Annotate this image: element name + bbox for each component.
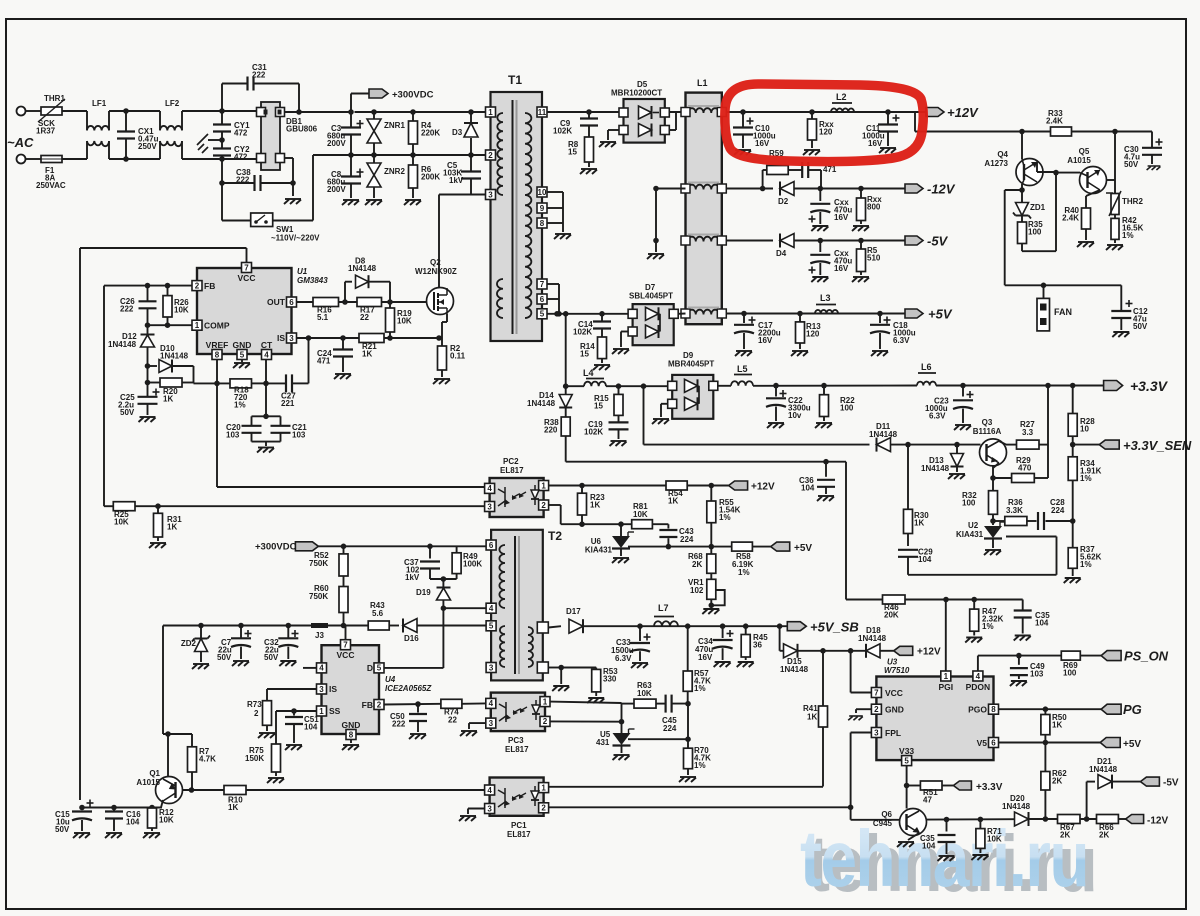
svg-text:1: 1 (944, 672, 949, 681)
PGO wire to PG flag (999, 708, 1101, 710)
ground C15 (73, 833, 90, 838)
svg-text:Q6: Q6 (881, 810, 892, 819)
wire T1 pin3 to Q2 drain (439, 194, 485, 196)
bridge rectifier DB1 (261, 102, 280, 170)
resistor R7 (191, 734, 193, 747)
svg-text:LF2: LF2 (165, 99, 180, 108)
svg-text:1: 1 (541, 783, 546, 792)
svg-text:ICE2A0565Z: ICE2A0565Z (385, 684, 432, 693)
ground C25 (139, 417, 156, 422)
svg-text:D17: D17 (566, 607, 581, 616)
+5V ref flag (771, 542, 790, 551)
ground Rxx (803, 150, 820, 155)
svg-text:102: 102 (690, 586, 704, 595)
wire L4 to D9 (606, 385, 667, 387)
wire D2 to -12V flag (821, 188, 905, 190)
svg-text:FAN: FAN (1054, 307, 1072, 317)
ground PC3 pin3 (469, 722, 486, 724)
capacitor C26 (147, 286, 149, 301)
ground C19 (610, 441, 627, 446)
ground U1 pin5 (241, 360, 243, 363)
capacitor C11 (887, 112, 889, 125)
svg-text:800: 800 (867, 202, 881, 211)
svg-text:100: 100 (962, 499, 976, 508)
ground R71 (971, 855, 988, 860)
diode D14 (565, 386, 567, 395)
wire R46 right (905, 599, 1023, 601)
wire +300 to T2 pin6 (318, 545, 487, 547)
svg-text:4: 4 (264, 350, 269, 359)
ground D5 return (608, 129, 619, 131)
svg-text:103: 103 (226, 430, 240, 439)
svg-text:U2: U2 (968, 521, 979, 530)
ground ZD2 (192, 664, 209, 669)
svg-text:EL817: EL817 (500, 466, 524, 475)
svg-text:3: 3 (487, 502, 492, 511)
T2 out tab top (537, 622, 548, 633)
ground PC1 pin3 (468, 808, 485, 810)
ground C12 (1112, 332, 1129, 337)
wire L1 row3 to D4 (726, 240, 773, 242)
svg-text:1%: 1% (694, 761, 706, 770)
svg-text:1kV: 1kV (405, 573, 420, 582)
U1 pin3 IS (287, 333, 297, 343)
ground C8 (342, 200, 359, 205)
svg-text:8: 8 (991, 705, 996, 714)
svg-text:4.7K: 4.7K (199, 754, 216, 763)
T1 pin5 (537, 309, 547, 319)
wire D15 junctions (823, 650, 866, 652)
svg-text:VREF: VREF (206, 340, 229, 350)
resistor R28 (1072, 386, 1074, 414)
svg-text:1N4148: 1N4148 (1089, 765, 1118, 774)
svg-text:4: 4 (487, 786, 492, 795)
snubber R59 (762, 170, 764, 189)
L1 winding 2 (688, 185, 719, 190)
diode D19 (441, 576, 447, 582)
resistor R2 (436, 335, 442, 341)
svg-text:3: 3 (289, 334, 294, 343)
snubber cap 471 (788, 169, 802, 171)
svg-text:D3: D3 (452, 128, 463, 137)
resistor R81 (632, 520, 653, 529)
wire Q6 base (851, 819, 900, 821)
svg-text:ZD2: ZD2 (181, 639, 197, 648)
svg-text:+3.3V: +3.3V (976, 782, 1003, 793)
ground C18 (871, 351, 888, 356)
capacitor C27 (263, 381, 269, 387)
svg-text:47: 47 (923, 795, 932, 804)
svg-text:472: 472 (234, 128, 248, 137)
svg-text:THR1: THR1 (44, 94, 65, 103)
wire D7 to L1 row4 (678, 313, 685, 315)
svg-text:2: 2 (541, 804, 546, 813)
ground U3 pin2 (856, 708, 871, 710)
svg-text:D4: D4 (776, 249, 787, 258)
+300VDC flag (350, 94, 352, 113)
svg-text:5: 5 (904, 756, 909, 765)
svg-text:472: 472 (234, 152, 248, 161)
svg-text:6.3V: 6.3V (929, 412, 946, 421)
resistor R12 (151, 807, 153, 810)
svg-text:1%: 1% (234, 400, 246, 409)
svg-text:9: 9 (540, 204, 545, 213)
svg-text:2: 2 (195, 281, 200, 290)
wire Q3 emitter (993, 463, 999, 468)
svg-text:6: 6 (289, 298, 294, 307)
resistor R73 (263, 701, 272, 726)
U6 ref wire (628, 546, 732, 548)
wire bottom CY2 to bridge (227, 158, 257, 160)
PDON wire (977, 656, 979, 671)
resistor R13 (799, 314, 801, 322)
PG flag (1101, 704, 1121, 714)
+5V output flag (905, 309, 923, 318)
svg-text:1N4148: 1N4148 (921, 464, 950, 473)
svg-text:50V: 50V (55, 825, 70, 834)
svg-text:6.3V: 6.3V (893, 336, 910, 345)
resistor R43 (368, 621, 389, 630)
capacitor C7 (240, 626, 242, 639)
diode D3 (468, 109, 474, 115)
wire D11 to Q3 base (891, 444, 981, 446)
capacitor C23 (962, 386, 964, 397)
svg-text:T2: T2 (548, 529, 562, 543)
resistor R66 (1097, 815, 1119, 824)
U4 pin1 SS (317, 706, 327, 716)
wire F1 to LF1 (62, 158, 87, 160)
svg-text:VCC: VCC (337, 650, 355, 660)
svg-text:2K: 2K (1060, 830, 1070, 839)
svg-text:100: 100 (1063, 668, 1077, 677)
R81 wire (561, 523, 632, 525)
wire L1 row2 left to ground (656, 188, 686, 190)
capacitor C38 (221, 159, 223, 221)
resistor R60 (343, 576, 345, 587)
V5 wire to +5V flag (999, 742, 1100, 744)
svg-text:224: 224 (680, 535, 694, 544)
svg-text:L5: L5 (737, 364, 748, 374)
svg-text:103: 103 (292, 430, 306, 439)
svg-text:GND: GND (885, 705, 904, 715)
5VSB rail (640, 625, 787, 627)
thermistor THR1 (41, 107, 62, 115)
svg-text:7: 7 (874, 688, 879, 697)
svg-text:200V: 200V (327, 139, 346, 148)
wire R25 to PC2 pin3 (135, 505, 485, 507)
svg-text:THR2: THR2 (1122, 197, 1143, 206)
capacitor C15 (81, 808, 83, 811)
wire VCC rail corner to R7 (162, 626, 164, 735)
capacitor C31 (221, 84, 223, 112)
ground C33 (631, 663, 648, 668)
T2 bottom tab ground (548, 667, 561, 669)
wire LF1 to CX1 bottom (109, 158, 160, 160)
AC terminal bottom (17, 155, 26, 164)
wire Q2 source to R2 (446, 314, 448, 322)
svg-text:1K: 1K (590, 500, 600, 509)
capacitor C33 (639, 626, 641, 641)
U3 pin2 GND (871, 704, 881, 714)
ground R31 (149, 543, 166, 548)
T2 pin5 (486, 621, 496, 631)
capacitor C36 (825, 462, 827, 477)
IC U1 GM3843 (197, 268, 292, 354)
ground R13 (791, 351, 808, 356)
svg-text:100K: 100K (463, 559, 482, 568)
svg-text:10: 10 (1080, 424, 1089, 433)
R46 wire (846, 599, 883, 601)
resistor R55 (710, 486, 712, 502)
svg-text:Q4: Q4 (997, 150, 1008, 159)
svg-text:VCC: VCC (885, 688, 903, 698)
diode D11 (877, 438, 891, 452)
U4 pin8 GND (346, 730, 356, 740)
svg-text:1N4148: 1N4148 (348, 264, 377, 273)
resistor R37 (1070, 518, 1076, 524)
transistor Q4 A1273 (1021, 132, 1023, 160)
ground C10 (734, 150, 751, 155)
+5V ref flag U3 (1100, 738, 1120, 748)
resistor R6 (412, 155, 414, 165)
svg-text:36: 36 (753, 640, 762, 649)
svg-text:+300VDC: +300VDC (255, 542, 297, 553)
wire LF2 to bridge top (182, 110, 256, 112)
wire down to D11 row (643, 386, 645, 444)
resistor R20 (145, 380, 151, 386)
wire PC2 pin1 (549, 485, 666, 487)
svg-text:ZD1: ZD1 (1030, 203, 1046, 212)
svg-text:GND: GND (342, 720, 361, 730)
svg-text:L3: L3 (820, 293, 831, 303)
svg-text:SBL4045PT: SBL4045PT (629, 292, 673, 301)
resistor R53 (561, 667, 596, 669)
svg-text:22: 22 (448, 716, 457, 725)
wire Q6 emitter to ground (908, 833, 919, 840)
svg-text:3: 3 (874, 728, 879, 737)
svg-text:2.4K: 2.4K (1046, 117, 1063, 126)
svg-text:1K: 1K (807, 713, 817, 722)
diode D20 (1015, 812, 1029, 826)
svg-text:B1116A: B1116A (973, 427, 1002, 436)
-12V bottom row wire (927, 818, 1015, 820)
resistor R63 (634, 699, 656, 708)
resistor R45 (745, 626, 747, 634)
svg-text:10K: 10K (397, 316, 412, 325)
svg-text:431: 431 (596, 738, 610, 747)
svg-text:16V: 16V (834, 264, 849, 273)
wire D5 to L1 (669, 111, 685, 113)
diode D13 (956, 445, 958, 453)
svg-text:8: 8 (215, 350, 220, 359)
wire +12V branch to R33 (914, 112, 916, 132)
ground R75 (267, 778, 284, 783)
svg-text:J3: J3 (315, 631, 324, 640)
svg-text:1N4148: 1N4148 (527, 399, 556, 408)
-5V output flag (905, 236, 923, 245)
U3 pin5 V33 (902, 756, 912, 766)
OUT wire / resistor R16 (297, 301, 314, 303)
FB wire (104, 285, 192, 287)
svg-text:220K: 220K (421, 128, 440, 137)
svg-text:1K: 1K (167, 522, 177, 531)
T1 pin10 (537, 187, 547, 197)
ground R12 (143, 833, 160, 838)
svg-text:3: 3 (319, 685, 324, 694)
svg-text:+12V: +12V (917, 647, 941, 658)
shunt regulator U5 431 (621, 722, 623, 733)
ground D7 return (621, 331, 628, 333)
svg-text:+3.3V: +3.3V (1130, 378, 1169, 394)
svg-text:1N4148: 1N4148 (858, 634, 887, 643)
svg-text:PGI: PGI (938, 682, 953, 692)
svg-text:+5V: +5V (794, 543, 812, 554)
D11 sense wire (644, 444, 870, 446)
svg-text:U4: U4 (385, 675, 396, 684)
shunt regulator U6 KIA431 (620, 524, 622, 536)
resistor R58 (732, 542, 753, 551)
T2 pin4 (486, 603, 496, 613)
wire U4 VCC (345, 626, 347, 640)
+12V ref flag (729, 481, 748, 490)
wire C36 column down (845, 462, 847, 600)
capacitors C20 C21 (263, 414, 269, 420)
resistor R36 and C28 (993, 520, 1005, 522)
svg-text:16V: 16V (868, 139, 883, 148)
resistor R41 (822, 651, 824, 706)
resistor R68 (710, 547, 712, 554)
svg-text:KIA431: KIA431 (585, 546, 613, 555)
T1 pin3 (486, 190, 496, 200)
svg-text:22: 22 (360, 313, 369, 322)
svg-text:10K: 10K (114, 517, 129, 526)
svg-text:3.3: 3.3 (1022, 428, 1034, 437)
chassis ground for CY caps (208, 139, 222, 141)
T1 pin9 (537, 203, 547, 213)
svg-text:Q3: Q3 (982, 418, 993, 427)
capacitor C34 (722, 626, 724, 638)
wire Q1 collector (167, 734, 169, 777)
ground C20 C21 (257, 448, 274, 453)
wire D4 to -5V flag (821, 240, 905, 242)
svg-text:150K: 150K (245, 754, 264, 763)
svg-text:7: 7 (540, 280, 545, 289)
capacitor C10 (742, 112, 744, 128)
T2 pin3 (486, 663, 496, 673)
diode D15 (779, 626, 781, 651)
svg-text:4: 4 (487, 484, 492, 493)
svg-text:L2: L2 (836, 92, 847, 102)
capacitor C43 (652, 523, 668, 525)
svg-text:+12V: +12V (947, 105, 979, 120)
svg-text:3: 3 (488, 190, 493, 199)
resistor R33 (1051, 127, 1072, 136)
capacitor C3 (348, 109, 354, 115)
resistor R34 (1072, 445, 1074, 457)
svg-text:+5V_SB: +5V_SB (810, 620, 859, 635)
SS wire (276, 710, 317, 712)
U4 pin4 (317, 663, 327, 673)
svg-text:3: 3 (487, 804, 492, 813)
ground Cxx -5V (811, 277, 828, 282)
-5V ref flag (1140, 777, 1159, 786)
capacitor CX1 (123, 108, 129, 114)
svg-text:PC2: PC2 (503, 457, 519, 466)
svg-text:OUT: OUT (267, 297, 286, 307)
ground U6 (612, 558, 629, 563)
svg-text:102K: 102K (584, 428, 603, 437)
svg-text:U1: U1 (297, 267, 308, 276)
wire Q3 collector to R27 (999, 441, 1006, 445)
svg-text:2: 2 (541, 501, 546, 510)
wire D9 to L5 (718, 385, 731, 387)
svg-text:1N4148: 1N4148 (160, 351, 189, 360)
resistor R40 (1082, 208, 1091, 229)
svg-text:10K: 10K (159, 815, 174, 824)
svg-text:GM3843: GM3843 (297, 276, 328, 285)
ground C17 (735, 351, 752, 356)
svg-text:4: 4 (489, 604, 494, 613)
svg-text:L6: L6 (921, 362, 932, 372)
svg-text:5.1: 5.1 (317, 313, 329, 322)
svg-text:750K: 750K (309, 559, 328, 568)
svg-text:15: 15 (568, 147, 577, 156)
U1 pin7 VCC (242, 263, 252, 273)
capacitor C51 (293, 711, 295, 716)
svg-text:5: 5 (240, 350, 245, 359)
wire R35 loop to base (1022, 250, 1056, 252)
svg-text:250VAC: 250VAC (36, 181, 66, 190)
ground C7 (232, 661, 249, 666)
svg-text:1R37: 1R37 (36, 127, 56, 136)
svg-text:GBU806: GBU806 (286, 124, 318, 133)
svg-text:A1015: A1015 (1067, 156, 1091, 165)
wire PC3 pin2 to U5 (550, 720, 622, 722)
fuse F1 (26, 158, 42, 160)
svg-text:3.3K: 3.3K (1006, 506, 1023, 515)
svg-text:16V: 16V (755, 139, 770, 148)
svg-text:50V: 50V (264, 653, 279, 662)
svg-text:10: 10 (538, 188, 547, 197)
resistor R22 (823, 386, 825, 395)
resistor R26 (167, 286, 169, 296)
svg-text:FB: FB (362, 700, 373, 710)
svg-text:104: 104 (801, 484, 815, 493)
svg-text:MBR4045PT: MBR4045PT (668, 360, 714, 369)
T1 primary winding (497, 113, 503, 195)
ground U4 pin8 (350, 740, 352, 744)
R25 wire (104, 505, 113, 507)
svg-text:104: 104 (304, 722, 318, 731)
svg-text:7: 7 (343, 641, 348, 650)
svg-text:10K: 10K (637, 689, 652, 698)
wire L6 to +3.3V flag (936, 385, 1104, 387)
svg-text:100: 100 (1028, 227, 1042, 236)
svg-text:50V: 50V (120, 408, 135, 417)
ground Cxx -12V (811, 226, 828, 231)
svg-text:D16: D16 (404, 634, 419, 643)
T1 pin2 (486, 150, 496, 160)
svg-text:-12V: -12V (1147, 816, 1168, 827)
capacitor C35 top (1022, 600, 1024, 611)
svg-text:1K: 1K (668, 496, 678, 505)
L1 winding 4 (688, 310, 719, 315)
resistor R21 (359, 334, 384, 343)
svg-text:104: 104 (918, 555, 932, 564)
capacitor C22 (775, 386, 777, 397)
wire LF2 to bridge bottom (182, 158, 256, 160)
resistor R52 (343, 546, 345, 554)
